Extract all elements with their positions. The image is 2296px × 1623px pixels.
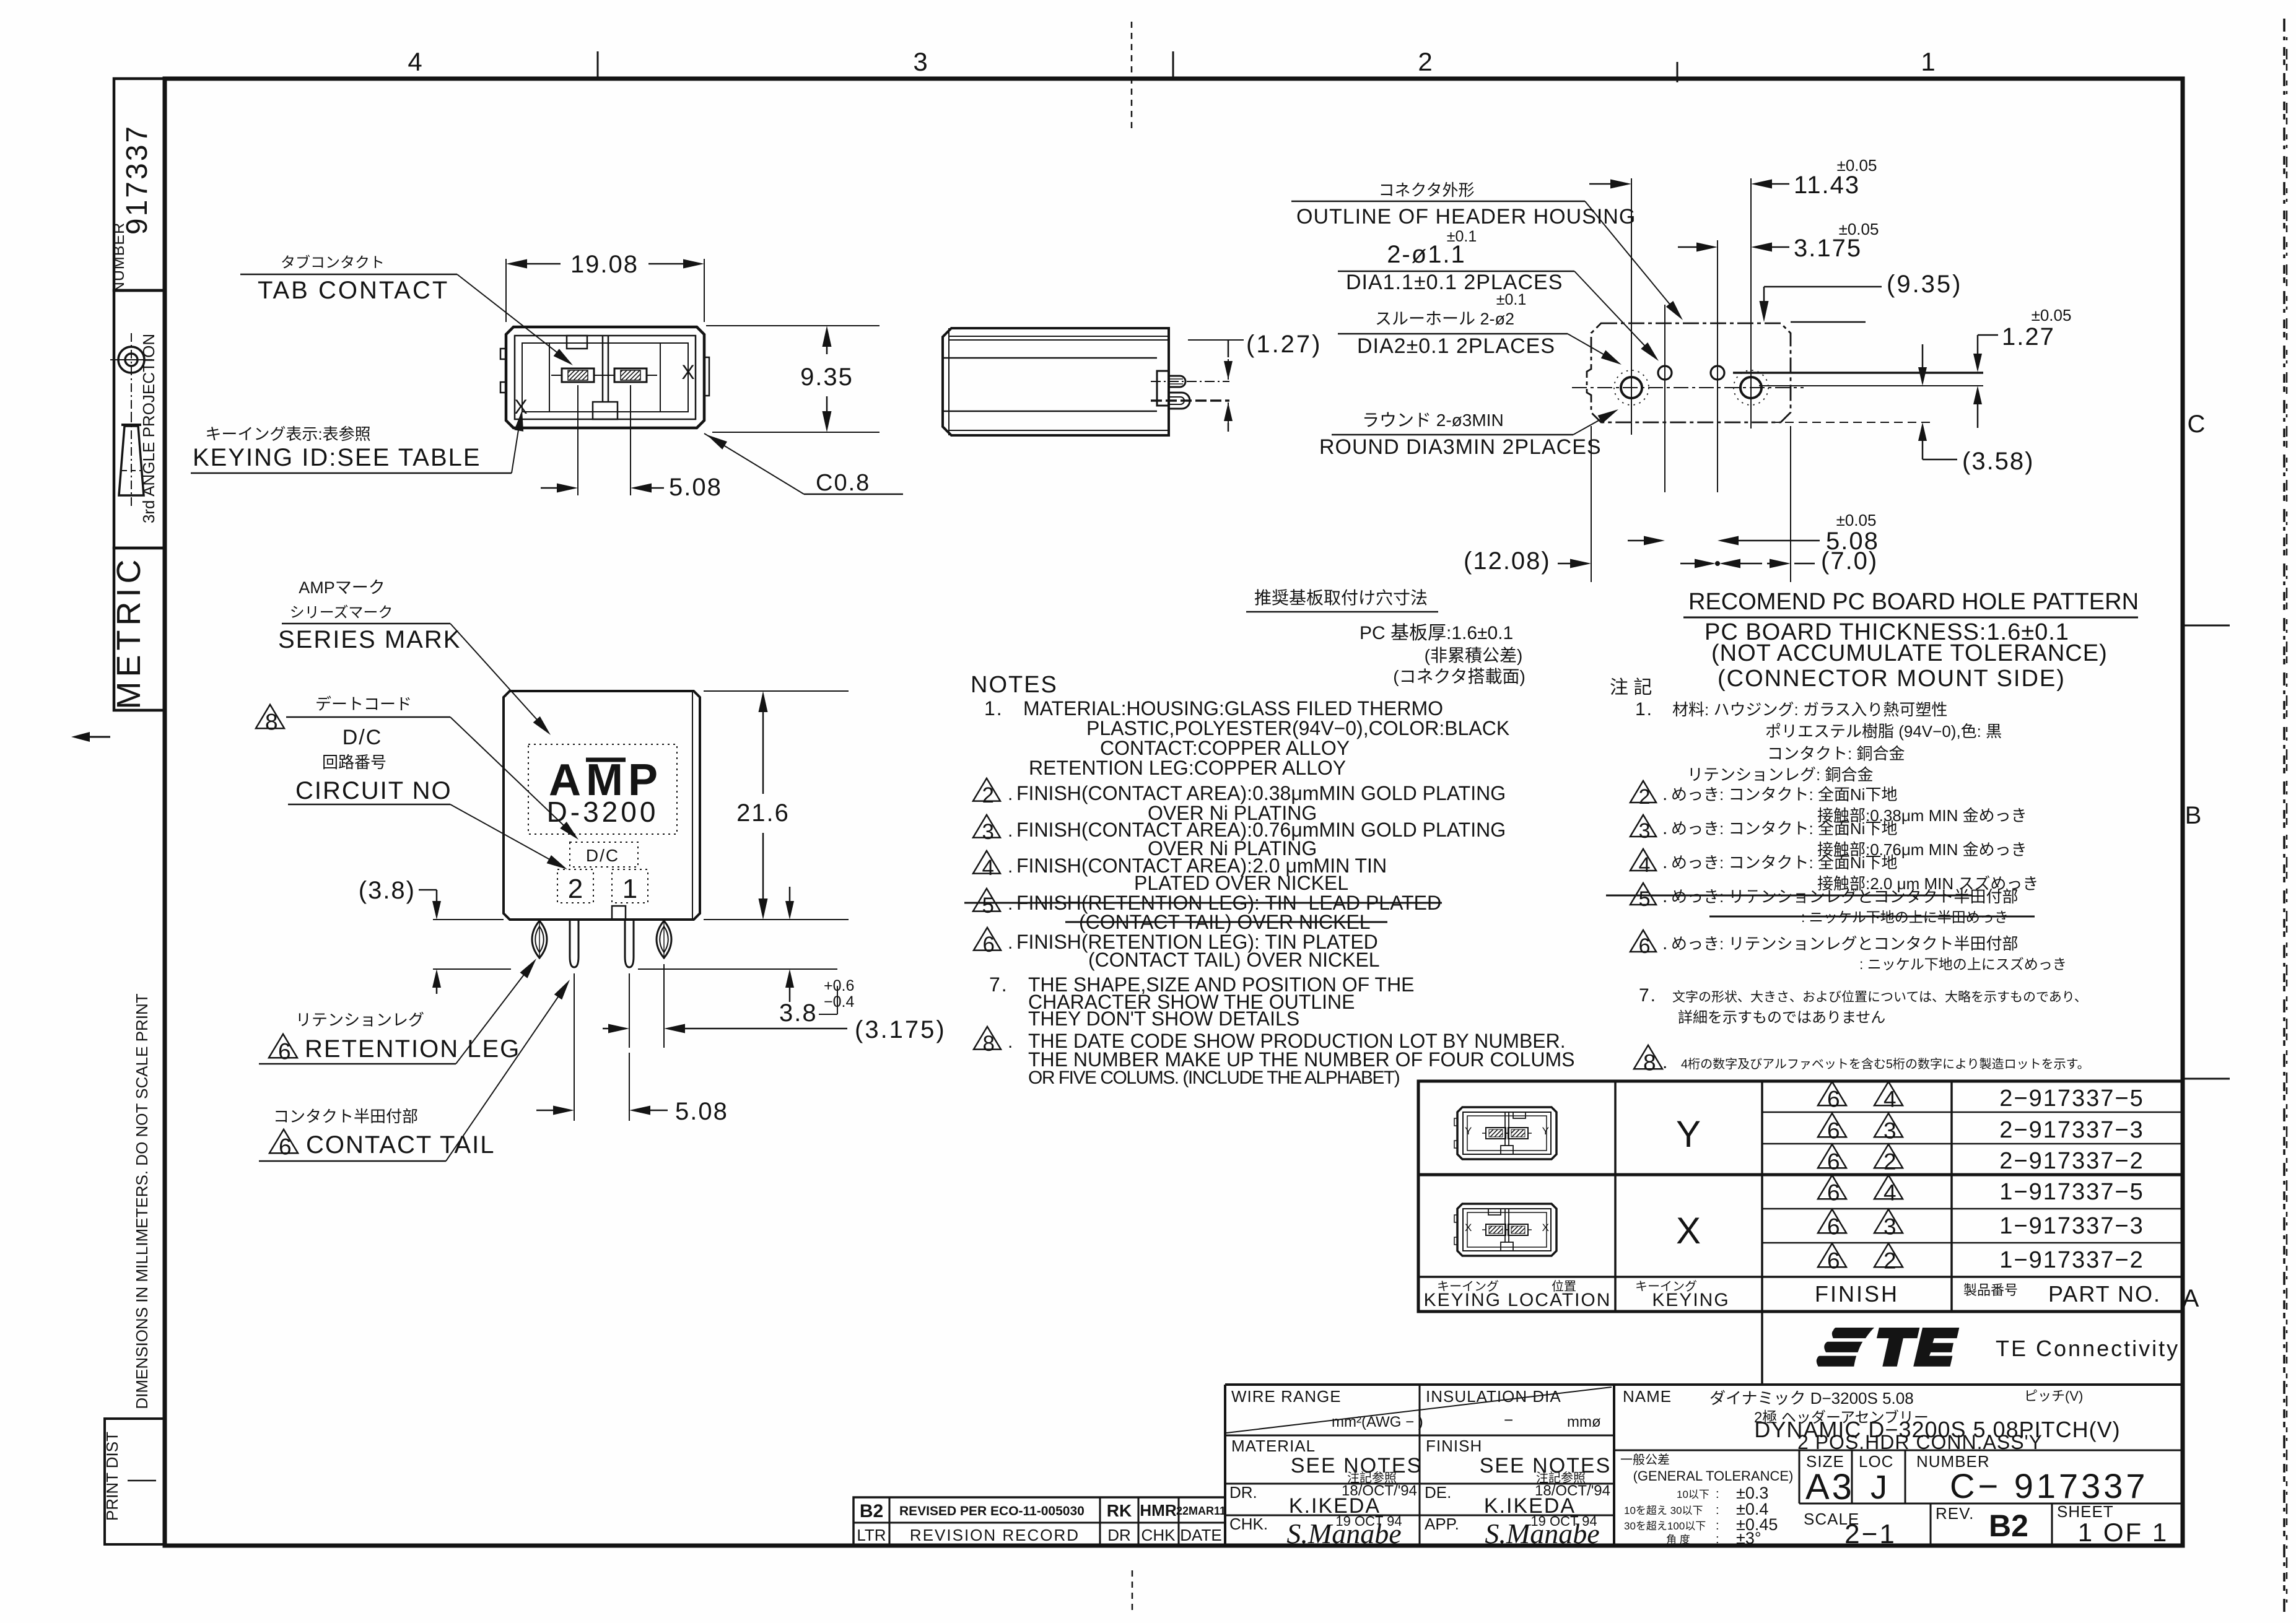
svg-text::: : xyxy=(1716,1533,1719,1546)
svg-text:9.35: 9.35 xyxy=(800,363,853,391)
svg-text:OR FIVE COLUMS. (INCLUDE THE A: OR FIVE COLUMS. (INCLUDE THE ALPHABET) xyxy=(1028,1068,1400,1088)
svg-text:(3.175): (3.175) xyxy=(855,1016,946,1043)
svg-text:タブコンタクト: タブコンタクト xyxy=(281,255,385,271)
plan view right edge lugs xyxy=(704,357,709,396)
svg-text:LOC: LOC xyxy=(1859,1452,1893,1471)
svg-text:角 度: 角 度 xyxy=(1666,1534,1690,1546)
svg-text:2: 2 xyxy=(1418,47,1432,76)
fold line bottom xyxy=(1132,1570,1133,1610)
svg-text:mmø: mmø xyxy=(1567,1414,1601,1430)
keying table group separator xyxy=(1418,1173,2182,1177)
jp note 3 triangle xyxy=(1630,815,1656,837)
svg-text:C: C xyxy=(2188,411,2206,438)
svg-text:3: 3 xyxy=(1639,819,1651,843)
svg-text:DATE: DATE xyxy=(1180,1526,1221,1544)
keying table finish row lines Y xyxy=(1762,1112,2182,1113)
keying table outer border xyxy=(1418,1081,2182,1312)
front view circuit number 2 xyxy=(557,869,593,903)
number cell xyxy=(1905,1450,1906,1503)
svg-text:TAB CONTACT: TAB CONTACT xyxy=(258,277,449,304)
svg-text:1: 1 xyxy=(1921,47,1935,76)
svg-text:RETENTION LEG:COPPER ALLOY: RETENTION LEG:COPPER ALLOY xyxy=(1029,757,1346,779)
pcb extension lines right xyxy=(1733,372,1983,374)
svg-text:2: 2 xyxy=(1884,1149,1897,1175)
svg-text:6: 6 xyxy=(1827,1149,1840,1175)
title block outer lines xyxy=(1225,1383,2182,1386)
svg-text:.: . xyxy=(1008,856,1013,877)
jp note 6 triangle xyxy=(1630,930,1656,952)
svg-text:2: 2 xyxy=(1884,1248,1897,1274)
svg-text:6: 6 xyxy=(1827,1214,1840,1240)
svg-text:D/C: D/C xyxy=(343,726,383,749)
plan view inner wall rect xyxy=(515,336,696,419)
plan view second inner wall xyxy=(522,343,688,412)
left fold arrow mark xyxy=(76,736,110,738)
TE Connectivity logo xyxy=(1817,1328,1960,1367)
pcb hole centerline 1 xyxy=(1631,178,1632,435)
svg-text:めっき: リテンションレグとコンタクト半田付部: めっき: リテンションレグとコンタクト半田付部 xyxy=(1671,934,2018,953)
svg-text:30を超え100以下: 30を超え100以下 xyxy=(1624,1520,1706,1532)
dimension shared arrows at 2773 xyxy=(1695,559,1716,568)
front view date code box xyxy=(570,842,638,867)
sidebar box projection xyxy=(114,290,165,548)
svg-text::: : xyxy=(1716,1519,1719,1533)
svg-text:PART NO.: PART NO. xyxy=(2048,1281,2161,1307)
plan view tab contact cavity 2 xyxy=(562,368,594,382)
svg-text:3.8: 3.8 xyxy=(779,999,818,1027)
svg-text:S.Manabe: S.Manabe xyxy=(1286,1518,1401,1549)
side view upper pin xyxy=(1169,376,1185,387)
svg-text:1−917337−3: 1−917337−3 xyxy=(1999,1213,2144,1239)
svg-text:.: . xyxy=(1008,933,1013,953)
svg-text:AMPマーク: AMPマーク xyxy=(299,578,385,597)
svg-text:NUMBER: NUMBER xyxy=(110,222,128,293)
note 2 finish triangle xyxy=(973,778,1000,801)
name cell bottom line xyxy=(1614,1450,2182,1451)
pcb hole centerline 3 xyxy=(1717,240,1718,492)
svg-text:2: 2 xyxy=(568,874,583,904)
svg-text:ダイナミック D−3200S 5.08: ダイナミック D−3200S 5.08 xyxy=(1709,1389,1914,1408)
svg-text:mm²(AWG − ): mm²(AWG − ) xyxy=(1332,1414,1423,1430)
svg-text:5: 5 xyxy=(982,894,993,918)
svg-text:6: 6 xyxy=(982,933,994,957)
svg-text:(12.08): (12.08) xyxy=(1464,547,1551,575)
svg-text:J: J xyxy=(1870,1469,1887,1506)
svg-text:FINISH: FINISH xyxy=(1815,1281,1899,1307)
svg-text:REVISION RECORD: REVISION RECORD xyxy=(910,1526,1080,1544)
svg-text:ラウンド 2-ø3MIN: ラウンド 2-ø3MIN xyxy=(1362,411,1504,430)
svg-text:ROUND DIA3MIN 2PLACES: ROUND DIA3MIN 2PLACES xyxy=(1319,435,1602,459)
svg-text::: : xyxy=(1716,1487,1719,1501)
pcb through hole dia2 left xyxy=(1621,377,1642,398)
svg-text:INSULATION DIA: INSULATION DIA xyxy=(1426,1387,1561,1406)
svg-text:材料: ハウジング: ガラス入り熱可塑性: 材料: ハウジング: ガラス入り熱可塑性 xyxy=(1672,700,1947,719)
svg-text:.: . xyxy=(1008,784,1013,804)
title block column divider xyxy=(1419,1385,1421,1546)
svg-text:KEYING: KEYING xyxy=(1652,1290,1729,1310)
svg-text:3.175: 3.175 xyxy=(1794,235,1862,262)
svg-text:キーイング表示:表参照: キーイング表示:表参照 xyxy=(205,425,370,443)
svg-text:1 OF 1: 1 OF 1 xyxy=(2078,1518,2168,1547)
keying table finish row lines X xyxy=(1762,1208,2182,1210)
svg-text::: : xyxy=(1716,1503,1719,1517)
svg-text:10以下: 10以下 xyxy=(1677,1489,1709,1500)
svg-text:X: X xyxy=(1676,1210,1701,1251)
dimension 1.27 pcb xyxy=(1978,334,1998,336)
svg-text:3: 3 xyxy=(913,47,927,76)
jp note 2 triangle xyxy=(1630,781,1656,803)
plan view top polarizing notch xyxy=(567,336,587,349)
svg-text:1−917337−2: 1−917337−2 xyxy=(1999,1247,2144,1273)
svg-text:リテンションレグ: リテンションレグ xyxy=(295,1011,424,1029)
dimension 5.08 front view xyxy=(574,973,575,1121)
fold line top xyxy=(1131,22,1133,133)
svg-text:ポリエステル樹脂 (94V−0),色: 黒: ポリエステル樹脂 (94V−0),色: 黒 xyxy=(1765,722,2002,741)
svg-text:6: 6 xyxy=(1827,1118,1840,1144)
svg-text:6: 6 xyxy=(278,1039,291,1064)
svg-text:B2: B2 xyxy=(1989,1508,2028,1543)
svg-text:8: 8 xyxy=(265,710,278,735)
svg-text:デートコード: デートコード xyxy=(315,695,412,713)
svg-text:REV.: REV. xyxy=(1936,1504,1974,1523)
svg-text:4: 4 xyxy=(408,47,422,76)
svg-text:DIMENSIONS IN MILLIMETERS. DO: DIMENSIONS IN MILLIMETERS. DO NOT SCALE … xyxy=(133,993,151,1409)
svg-text:.: . xyxy=(1662,933,1667,954)
svg-text:1.27: 1.27 xyxy=(2002,323,2055,350)
svg-text:(CONNECTOR MOUNT SIDE): (CONNECTOR MOUNT SIDE) xyxy=(1718,666,2066,692)
note 3 finish triangle xyxy=(973,815,1000,838)
svg-text:RETENTION LEG: RETENTION LEG xyxy=(305,1035,520,1063)
plan view connector body outline xyxy=(506,327,704,428)
side view body surface lines xyxy=(949,336,1169,337)
svg-text:DR.: DR. xyxy=(1229,1483,1257,1502)
front view right wall line xyxy=(692,691,693,920)
svg-text:CHK.: CHK. xyxy=(1229,1515,1268,1533)
dimension (3.175) xyxy=(629,973,630,1048)
svg-text:.: . xyxy=(1008,894,1013,914)
svg-text:(CONTACT TAIL) OVER NICKEL: (CONTACT TAIL) OVER NICKEL xyxy=(1088,949,1380,971)
svg-text:CIRCUIT NO: CIRCUIT NO xyxy=(295,777,452,804)
svg-text:±3°: ±3° xyxy=(1736,1529,1761,1547)
svg-text:めっき: コンタクト: 全面Ni下地: めっき: コンタクト: 全面Ni下地 xyxy=(1671,819,1897,838)
svg-text:詳細を示すものではありません: 詳細を示すものではありません xyxy=(1678,1009,1885,1026)
svg-text:A3: A3 xyxy=(1805,1467,1854,1507)
svg-text:(コネクタ搭載面): (コネクタ搭載面) xyxy=(1393,667,1526,686)
dimension 9.35 xyxy=(706,325,880,326)
svg-text:4: 4 xyxy=(1639,853,1651,877)
note 6 finish triangle xyxy=(974,928,1001,951)
front view retention leg left xyxy=(532,921,547,958)
svg-text:±0.1: ±0.1 xyxy=(1447,228,1477,245)
svg-text:MATERIAL:HOUSING:GLASS FILED T: MATERIAL:HOUSING:GLASS FILED THERMO xyxy=(1023,697,1443,720)
dimension 19.08 xyxy=(505,259,507,322)
svg-text:: ニッケル下地の上にスズめっき: : ニッケル下地の上にスズめっき xyxy=(1859,956,2067,972)
pcb hole centerline 2 xyxy=(1664,305,1665,492)
svg-text:−: − xyxy=(1504,1411,1513,1429)
svg-text:C0.8: C0.8 xyxy=(816,470,870,496)
jp note 4 triangle xyxy=(1630,849,1656,871)
svg-text:3: 3 xyxy=(1884,1214,1897,1240)
svg-text:8: 8 xyxy=(982,1032,994,1056)
dimension (9.35) xyxy=(1764,286,1882,288)
svg-text:5.08: 5.08 xyxy=(669,474,722,501)
pcb top edge extension line xyxy=(1791,321,1866,323)
svg-text:19.08: 19.08 xyxy=(570,251,639,278)
svg-text:1.: 1. xyxy=(984,697,1003,720)
svg-text:.: . xyxy=(1662,852,1667,872)
keying table column lines xyxy=(1614,1081,1617,1312)
svg-text:めっき: コンタクト: 全面Ni下地: めっき: コンタクト: 全面Ni下地 xyxy=(1671,853,1897,872)
svg-text:S.Manabe: S.Manabe xyxy=(1485,1518,1599,1549)
svg-text:Y: Y xyxy=(1465,1125,1472,1137)
pcb through hole dia2 right xyxy=(1740,377,1761,398)
svg-text:2−917337−3: 2−917337−3 xyxy=(1999,1117,2144,1143)
svg-text:22MAR11: 22MAR11 xyxy=(1176,1505,1226,1517)
front view circuit number 1 xyxy=(612,869,648,903)
svg-text:THEY DON'T SHOW DETAILS: THEY DON'T SHOW DETAILS xyxy=(1028,1007,1299,1030)
sidebar box PRINT DIST xyxy=(105,1419,165,1544)
svg-text:METRIC: METRIC xyxy=(110,555,147,710)
svg-text:コンタクト半田付部: コンタクト半田付部 xyxy=(273,1107,418,1126)
svg-text:SERIES MARK: SERIES MARK xyxy=(278,626,461,653)
svg-text:.: . xyxy=(1008,1032,1013,1052)
svg-text:めっき: コンタクト: 全面Ni下地: めっき: コンタクト: 全面Ni下地 xyxy=(1671,785,1897,804)
scan edge artifact right xyxy=(2283,19,2285,1616)
svg-text:OUTLINE OF HEADER HOUSING: OUTLINE OF HEADER HOUSING xyxy=(1296,205,1636,228)
side view lower pin xyxy=(1169,393,1190,409)
svg-text:PLATED OVER NICKEL: PLATED OVER NICKEL xyxy=(1134,872,1348,894)
rev cell xyxy=(1930,1503,1932,1546)
svg-text:スルーホール 2-ø2: スルーホール 2-ø2 xyxy=(1375,310,1514,328)
svg-text:DE.: DE. xyxy=(1425,1483,1451,1502)
front view bottom notch xyxy=(612,906,626,920)
svg-text:(GENERAL TOLERANCE): (GENERAL TOLERANCE) xyxy=(1633,1468,1794,1484)
svg-text:LTR: LTR xyxy=(857,1526,886,1544)
svg-text:DIA2±0.1 2PLACES: DIA2±0.1 2PLACES xyxy=(1357,334,1555,358)
svg-text:リテンションレグ: 銅合金: リテンションレグ: 銅合金 xyxy=(1687,765,1873,784)
svg-text:FINISH(CONTACT AREA):0.38μmMIN: FINISH(CONTACT AREA):0.38μmMIN GOLD PLAT… xyxy=(1016,782,1506,804)
wire range diagonal xyxy=(1226,1387,1612,1433)
note 8 date code triangle xyxy=(974,1027,1001,1050)
svg-text:±0.05: ±0.05 xyxy=(1837,156,1877,175)
dimension 5.08 plan view xyxy=(577,385,578,495)
front view contact pin 1 xyxy=(625,920,634,967)
drawing frame border xyxy=(165,79,2183,1546)
svg-text:(NOT ACCUMULATE TOLERANCE): (NOT ACCUMULATE TOLERANCE) xyxy=(1711,640,2108,666)
svg-text:6: 6 xyxy=(1827,1248,1840,1274)
svg-text:REVISED PER ECO-11-005030: REVISED PER ECO-11-005030 xyxy=(899,1504,1085,1518)
sidebar box METRIC xyxy=(114,548,165,710)
svg-text:B: B xyxy=(2185,802,2202,829)
svg-text:ピッチ(V): ピッチ(V) xyxy=(2024,1388,2083,1404)
pcb retention hole dia1.1 right xyxy=(1711,366,1724,380)
svg-text:Y: Y xyxy=(1542,1125,1549,1137)
side view lower pin centerline xyxy=(1151,399,1229,402)
pcb hole centerline 4 xyxy=(1750,178,1752,429)
plan view left edge lugs xyxy=(500,349,506,359)
svg-text:4: 4 xyxy=(982,856,993,880)
svg-text:WIRE RANGE: WIRE RANGE xyxy=(1231,1387,1342,1406)
keying table finish triangles row3 xyxy=(1818,1144,1846,1168)
svg-text:MATERIAL: MATERIAL xyxy=(1231,1437,1316,1455)
svg-text:2−917337−2: 2−917337−2 xyxy=(1999,1148,2144,1174)
svg-text:11.43: 11.43 xyxy=(1794,172,1860,199)
note 4 finish triangle xyxy=(973,851,1000,874)
svg-text:X: X xyxy=(681,361,694,383)
title block row lines left xyxy=(1225,1435,1614,1437)
svg-text:2−1: 2−1 xyxy=(1844,1519,1897,1549)
svg-text:8: 8 xyxy=(1643,1050,1656,1076)
svg-text:−0.4: −0.4 xyxy=(824,993,854,1011)
svg-text:+0.6: +0.6 xyxy=(824,977,854,994)
note 5 finish triangle struck xyxy=(973,889,1000,912)
front view contact pin 2 xyxy=(570,920,578,967)
svg-text:CHK: CHK xyxy=(1141,1526,1176,1544)
keying table connector icon Y xyxy=(1457,1107,1556,1159)
front view marking dotted box xyxy=(528,744,677,834)
svg-text:917337: 917337 xyxy=(121,124,154,235)
svg-text:5.08: 5.08 xyxy=(1826,528,1879,555)
svg-text:RECOMEND PC BOARD HOLE PATTERN: RECOMEND PC BOARD HOLE PATTERN xyxy=(1688,589,2139,615)
svg-text:±0.1: ±0.1 xyxy=(1496,291,1526,308)
label date code D/C triangle 8 xyxy=(256,705,284,728)
svg-text:3: 3 xyxy=(1884,1118,1897,1144)
svg-text:.: . xyxy=(1008,820,1013,841)
svg-text:PRINT DIST: PRINT DIST xyxy=(103,1432,121,1521)
svg-text:10を超え 30以下: 10を超え 30以下 xyxy=(1624,1505,1703,1516)
svg-text:.: . xyxy=(1662,818,1667,838)
dimension (1.27) side view xyxy=(1188,339,1244,341)
projection symbol frustum xyxy=(121,424,141,426)
pcb centerline horizontal xyxy=(1572,387,1804,388)
svg-text:(非累積公差): (非累積公差) xyxy=(1425,646,1523,665)
dimension 3.8 +0.6-0.4 right xyxy=(638,968,837,970)
svg-text:6: 6 xyxy=(279,1134,292,1160)
svg-text:注 記: 注 記 xyxy=(1610,677,1652,698)
label C0.8 chamfer xyxy=(704,433,804,494)
zone tick marks right border xyxy=(2183,625,2230,627)
svg-text:5.08: 5.08 xyxy=(675,1098,728,1125)
side view pin shroud step xyxy=(1157,371,1169,406)
sheet cell xyxy=(2051,1503,2053,1546)
svg-text:回路番号: 回路番号 xyxy=(322,753,386,772)
svg-text:4: 4 xyxy=(1884,1180,1897,1206)
keying table header top line xyxy=(1418,1276,2182,1278)
svg-text:一般公差: 一般公差 xyxy=(1620,1453,1670,1467)
svg-text:PC 基板厚:1.6±0.1: PC 基板厚:1.6±0.1 xyxy=(1360,623,1513,643)
svg-text:推奨基板取付け穴寸法: 推奨基板取付け穴寸法 xyxy=(1254,588,1428,607)
svg-text:.: . xyxy=(1662,784,1667,804)
svg-text:4桁の数字及びアルファベットを含む5桁の数字により製造ロット: 4桁の数字及びアルファベットを含む5桁の数字により製造ロットを示す。 xyxy=(1681,1057,2090,1071)
svg-text:CONTACT:COPPER ALLOY: CONTACT:COPPER ALLOY xyxy=(1100,737,1350,759)
svg-text:6: 6 xyxy=(1827,1180,1840,1206)
svg-text:NAME: NAME xyxy=(1623,1387,1672,1406)
svg-text:5: 5 xyxy=(1639,887,1651,911)
svg-text:(9.35): (9.35) xyxy=(1887,271,1963,298)
svg-text:DR: DR xyxy=(1107,1526,1131,1544)
svg-text:A: A xyxy=(2183,1285,2199,1312)
keying table finish triangles row4 xyxy=(1818,1175,1846,1199)
jp note 8 triangle xyxy=(1634,1045,1662,1069)
svg-text:Y: Y xyxy=(1676,1113,1701,1155)
svg-text:製品番号: 製品番号 xyxy=(1963,1282,2018,1298)
dimension 21.6 xyxy=(704,690,849,692)
revision table row divider xyxy=(853,1522,1225,1524)
front view connector body xyxy=(504,691,700,920)
keying table connector icon X xyxy=(1457,1204,1556,1256)
svg-text:7.: 7. xyxy=(989,973,1008,996)
svg-text:2−917337−5: 2−917337−5 xyxy=(1999,1086,2144,1112)
svg-text:C− 917337: C− 917337 xyxy=(1950,1466,2149,1505)
loc cell xyxy=(1851,1450,1853,1503)
zone tick marks top border xyxy=(597,51,599,79)
plan view center divider rib xyxy=(602,336,604,402)
svg-text:.: . xyxy=(1662,1052,1667,1073)
svg-text:B2: B2 xyxy=(860,1501,883,1521)
svg-text:2: 2 xyxy=(982,783,993,807)
revision table border xyxy=(853,1497,1225,1546)
svg-text:X: X xyxy=(1542,1222,1549,1234)
svg-text:CONTACT TAIL: CONTACT TAIL xyxy=(306,1131,495,1159)
svg-text:X: X xyxy=(1465,1222,1472,1234)
svg-text:±0.05: ±0.05 xyxy=(1839,220,1879,238)
keying table finish triangles row5 xyxy=(1818,1209,1846,1233)
svg-text:1.: 1. xyxy=(1635,699,1653,720)
keying table finish triangles row1 xyxy=(1818,1082,1846,1105)
dimension 5.08 pcb xyxy=(1628,540,1661,542)
svg-text:1: 1 xyxy=(622,874,637,904)
svg-text:±0.05: ±0.05 xyxy=(1836,511,1877,529)
plan view chamber divider lines xyxy=(549,343,550,412)
svg-text:7.: 7. xyxy=(1639,985,1657,1006)
dimension 11.43 xyxy=(1589,183,1628,185)
svg-text:2: 2 xyxy=(1639,785,1651,809)
svg-text:FINISH: FINISH xyxy=(1426,1437,1482,1455)
jp note 5 triangle struck xyxy=(1630,883,1656,905)
side view connector body xyxy=(943,328,1169,435)
front view retention leg right xyxy=(657,921,671,958)
svg-text:21.6: 21.6 xyxy=(736,799,790,827)
svg-text:D/C: D/C xyxy=(586,846,619,865)
svg-text:1−917337−5: 1−917337−5 xyxy=(1999,1179,2144,1205)
svg-text:シリーズマーク: シリーズマーク xyxy=(290,604,393,621)
dimension (3.58) xyxy=(1922,344,1924,380)
svg-text:PLASTIC,POLYESTER(94V−0),COLOR: PLASTIC,POLYESTER(94V−0),COLOR:BLACK xyxy=(1086,717,1509,739)
svg-text:文字の形状、大きさ、および位置については、大略を示すものであ: 文字の形状、大きさ、および位置については、大略を示すものであり、 xyxy=(1672,990,2087,1004)
svg-text:±0.05: ±0.05 xyxy=(2032,306,2072,324)
svg-text:6: 6 xyxy=(1639,934,1651,958)
svg-text:.: . xyxy=(1662,886,1667,907)
keying table finish triangles row6 xyxy=(1818,1243,1846,1267)
pcb retention hole dia1.1 left xyxy=(1658,366,1672,380)
svg-text:HMR: HMR xyxy=(1140,1501,1176,1520)
svg-text:RK: RK xyxy=(1107,1501,1132,1520)
dimension 3.175 xyxy=(1678,246,1714,248)
keying table finish triangles row2 xyxy=(1818,1113,1846,1137)
svg-text:3: 3 xyxy=(982,820,993,844)
svg-text:NOTES: NOTES xyxy=(971,672,1058,698)
svg-text:KEYING LOCATION: KEYING LOCATION xyxy=(1424,1290,1612,1310)
svg-text:KEYING ID:SEE TABLE: KEYING ID:SEE TABLE xyxy=(193,444,481,471)
svg-text:(3.58): (3.58) xyxy=(1962,448,2035,475)
svg-text:6: 6 xyxy=(1827,1087,1840,1112)
svg-text:(1.27): (1.27) xyxy=(1246,331,1322,358)
svg-text:(3.8): (3.8) xyxy=(359,877,416,904)
size row bottom line xyxy=(1799,1503,2182,1505)
svg-text:D-3200: D-3200 xyxy=(547,796,659,828)
svg-text:DIA1.1±0.1 2PLACES: DIA1.1±0.1 2PLACES xyxy=(1346,271,1563,294)
svg-text:めっき: リテンションレグとコンタクト半田付部: めっき: リテンションレグとコンタクト半田付部 xyxy=(1671,887,2018,906)
